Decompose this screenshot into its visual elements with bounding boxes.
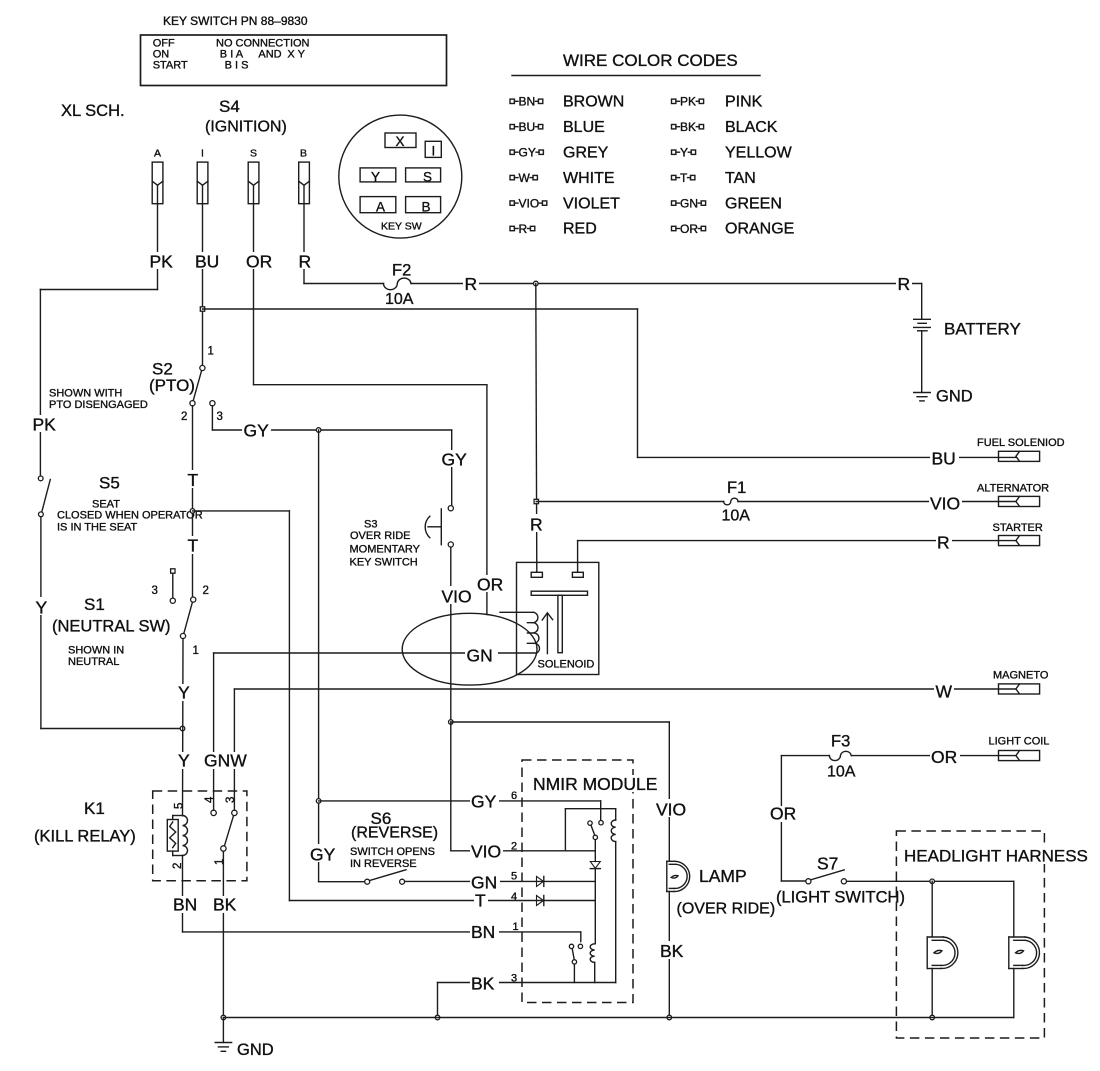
battery xyxy=(914,284,1021,393)
svg-text:S1: S1 xyxy=(84,595,105,614)
svg-text:Y: Y xyxy=(178,751,190,771)
svg-text:PK: PK xyxy=(33,415,57,435)
node junction VIO xyxy=(449,720,454,725)
svg-text:MOMENTARY: MOMENTARY xyxy=(350,544,421,556)
svg-text:PK: PK xyxy=(680,95,696,109)
svg-text:S7: S7 xyxy=(817,854,838,874)
legend VIO = VIOLET xyxy=(510,195,620,212)
svg-text:VIO: VIO xyxy=(930,494,960,514)
wire BK from lamp to ground bus xyxy=(659,892,686,1018)
svg-text:VIO: VIO xyxy=(442,587,472,607)
node junction Y xyxy=(180,726,185,731)
svg-text:PK: PK xyxy=(150,252,174,272)
node junction BU xyxy=(200,307,204,311)
svg-text:GN: GN xyxy=(467,646,493,666)
svg-text:STARTER: STARTER xyxy=(993,522,1043,534)
node junction GY xyxy=(316,428,321,433)
svg-text:Y: Y xyxy=(371,169,380,184)
legend BK = BLACK xyxy=(672,119,778,136)
svg-text:BK: BK xyxy=(213,895,237,915)
svg-text:TAN: TAN xyxy=(725,170,756,187)
wire BK inside NMIR xyxy=(522,982,616,984)
NMIR diode D3 on pin 4 line xyxy=(537,896,544,906)
wire VIO from S3 down through engine ellipse xyxy=(441,547,476,722)
relay K1 (kill relay) xyxy=(34,791,247,881)
svg-text:R: R xyxy=(299,252,312,272)
legend PK = PINK xyxy=(672,94,763,111)
legend OR = ORANGE xyxy=(672,221,795,238)
switch S1 (neutral) xyxy=(52,569,209,668)
svg-text:(IGNITION): (IGNITION) xyxy=(205,119,287,136)
NMIR pin numbers xyxy=(511,790,519,985)
svg-text:AND: AND xyxy=(258,49,281,61)
svg-text:2: 2 xyxy=(203,585,209,597)
svg-text:ALTERNATOR: ALTERNATOR xyxy=(977,483,1049,495)
wire T to NMIR pin 4 xyxy=(193,511,596,911)
headlight harness box xyxy=(896,831,1088,1038)
svg-text:IN REVERSE: IN REVERSE xyxy=(350,858,417,870)
svg-text:NEUTRAL: NEUTRAL xyxy=(68,656,119,668)
wire GY from S2 pin 3 xyxy=(212,406,469,506)
connector terminal I xyxy=(197,148,208,204)
switch S5 (seat) xyxy=(38,474,202,534)
svg-text:W: W xyxy=(936,682,953,702)
svg-text:SHOWN WITH: SHOWN WITH xyxy=(49,388,122,400)
NMIR relay 1 coil xyxy=(611,809,616,983)
svg-text:1: 1 xyxy=(208,346,214,358)
svg-text:X Y: X Y xyxy=(287,49,305,61)
NMIR diode D1 xyxy=(590,840,600,944)
wire R from terminal B xyxy=(298,204,922,294)
ground GND bottom xyxy=(215,1018,274,1060)
NMIR relay 1 switch xyxy=(588,801,603,840)
wire ground bus xyxy=(223,1017,1013,1019)
wire PK from terminal A xyxy=(31,204,174,476)
svg-text:OR: OR xyxy=(246,252,272,272)
svg-text:FUEL SOLENIOD: FUEL SOLENIOD xyxy=(977,437,1065,449)
connector LIGHT COIL xyxy=(989,736,1050,761)
svg-text:(NEUTRAL SW): (NEUTRAL SW) xyxy=(52,618,171,636)
wire BN from K1 pin 2 to NMIR pin 1 xyxy=(172,856,581,943)
NMIR inner VIO link xyxy=(565,809,615,851)
svg-text:CLOSED WHEN OPERATOR: CLOSED WHEN OPERATOR xyxy=(57,510,203,522)
fuse F2 xyxy=(384,262,414,309)
svg-text:OR: OR xyxy=(680,222,698,236)
svg-text:1: 1 xyxy=(193,645,199,657)
svg-text:4: 4 xyxy=(511,891,517,903)
svg-text:R: R xyxy=(898,274,911,294)
svg-text:GY: GY xyxy=(519,146,536,160)
node junction ground bus left xyxy=(221,1015,226,1020)
node junction BK bus xyxy=(435,1015,440,1020)
wire BU to fuel solenoid xyxy=(203,309,1017,469)
svg-text:W: W xyxy=(519,171,531,185)
wire R/VIO through fuse F1 to alternator xyxy=(536,494,1016,514)
svg-text:2: 2 xyxy=(511,841,517,853)
svg-text:IS IN THE SEAT: IS IN THE SEAT xyxy=(57,522,138,534)
legend GN = GREEN xyxy=(672,195,782,212)
svg-text:(LIGHT SWITCH): (LIGHT SWITCH) xyxy=(776,889,905,907)
svg-text:F2: F2 xyxy=(392,262,411,280)
node junction bulb left bus xyxy=(930,1015,935,1020)
svg-text:PTO DISENGAGED: PTO DISENGAGED xyxy=(49,399,148,411)
key switch truth table box xyxy=(141,35,447,86)
svg-text:ORANGE: ORANGE xyxy=(725,221,794,238)
svg-text:10A: 10A xyxy=(385,291,414,308)
svg-text:BU: BU xyxy=(195,252,219,272)
svg-text:NMIR MODULE: NMIR MODULE xyxy=(533,774,657,794)
svg-text:BATTERY: BATTERY xyxy=(944,320,1021,339)
legend R = RED xyxy=(510,221,597,238)
svg-text:B: B xyxy=(300,148,307,160)
svg-text:BROWN: BROWN xyxy=(563,94,624,111)
node junction headlight left xyxy=(930,879,935,884)
svg-text:I: I xyxy=(432,144,436,159)
svg-text:Y: Y xyxy=(680,146,688,160)
wire Y from S5 to junction on S1 output xyxy=(34,517,183,729)
svg-text:S: S xyxy=(423,169,432,184)
svg-text:1: 1 xyxy=(513,921,519,933)
svg-text:GY: GY xyxy=(471,792,497,812)
svg-text:SOLENOID: SOLENOID xyxy=(538,659,595,671)
svg-text:HEADLIGHT HARNESS: HEADLIGHT HARNESS xyxy=(904,847,1088,866)
svg-text:OR: OR xyxy=(477,575,503,595)
wire R from solenoid to starter xyxy=(578,533,1016,573)
svg-text:MAGNETO: MAGNETO xyxy=(993,670,1049,682)
key switch rear view circle xyxy=(339,115,462,238)
wire BU from terminal I xyxy=(194,204,219,366)
legend GY = GREY xyxy=(510,144,609,161)
svg-text:S3: S3 xyxy=(364,519,377,531)
wire GN from S6 to NMIR pin 5 xyxy=(405,873,596,893)
svg-text:VIO: VIO xyxy=(656,800,686,820)
wire GY to NMIR pin 6 xyxy=(319,792,601,812)
wire T from S2 pin 2 to S1 pin 2 xyxy=(186,406,200,597)
svg-text:5: 5 xyxy=(174,803,186,809)
svg-text:BLUE: BLUE xyxy=(563,119,605,136)
switch S2 (PTO) xyxy=(49,346,223,424)
svg-text:GREY: GREY xyxy=(563,144,609,161)
svg-text:T: T xyxy=(680,171,688,185)
svg-text:3: 3 xyxy=(152,585,158,597)
NMIR module box xyxy=(522,760,657,1003)
svg-text:X: X xyxy=(396,134,405,149)
svg-text:YELLOW: YELLOW xyxy=(725,144,793,161)
svg-text:R: R xyxy=(519,222,528,236)
svg-text:F1: F1 xyxy=(727,479,746,497)
svg-text:I: I xyxy=(201,148,204,160)
connector terminal S xyxy=(248,148,259,204)
NMIR diode D2 on pin 5 line xyxy=(537,876,544,886)
lamp (over ride) xyxy=(667,861,775,917)
svg-text:BU: BU xyxy=(519,120,536,134)
svg-text:BLACK: BLACK xyxy=(725,119,778,136)
svg-text:SHOWN IN: SHOWN IN xyxy=(68,645,124,657)
svg-text:GN: GN xyxy=(471,873,497,893)
NMIR relay 2 coil xyxy=(590,944,595,983)
svg-text:RED: RED xyxy=(563,221,597,238)
svg-text:WIRE COLOR CODES: WIRE COLOR CODES xyxy=(563,51,738,70)
svg-text:GND: GND xyxy=(936,388,973,406)
legend BN = BROWN xyxy=(510,94,624,111)
NMIR relay 2 switch xyxy=(569,932,582,983)
svg-text:LAMP: LAMP xyxy=(699,866,747,886)
node junction R xyxy=(534,281,539,286)
node junction GY NMIR xyxy=(316,799,321,804)
wire GN from K1 pin 4 to solenoid coil xyxy=(214,642,537,810)
connector STARTER xyxy=(993,522,1043,546)
svg-text:GY: GY xyxy=(442,450,468,470)
svg-text:3: 3 xyxy=(225,797,237,803)
svg-text:1: 1 xyxy=(214,859,226,865)
svg-text:BK: BK xyxy=(680,120,696,134)
solenoid coil xyxy=(500,612,539,653)
svg-text:6: 6 xyxy=(511,790,517,802)
legend W = WHITE xyxy=(510,170,615,187)
svg-text:BN: BN xyxy=(471,922,495,942)
wire BK from NMIR pin 3 to ground bus xyxy=(438,974,523,1018)
legend T = TAN xyxy=(672,170,756,187)
svg-text:3: 3 xyxy=(217,411,223,423)
svg-text:XL SCH.: XL SCH. xyxy=(61,102,125,120)
wire VIO junction to NMIR pin 2 xyxy=(451,722,596,862)
svg-text:B I S: B I S xyxy=(225,60,249,72)
wire OR from light coil fuse F3 to S7 xyxy=(769,747,1016,881)
svg-text:10A: 10A xyxy=(827,764,856,781)
svg-text:A: A xyxy=(376,200,385,215)
svg-text:GY: GY xyxy=(244,421,270,441)
svg-text:S4: S4 xyxy=(219,97,240,116)
connector MAGNETO xyxy=(993,670,1049,695)
svg-text:Y: Y xyxy=(36,598,48,618)
wire R from junction to solenoid terminal xyxy=(528,284,545,573)
engine ellipse xyxy=(402,613,537,685)
svg-text:(REVERSE): (REVERSE) xyxy=(351,825,438,842)
svg-text:OR: OR xyxy=(931,747,957,767)
connector terminal B xyxy=(299,148,310,204)
wire OR from S7 to headlights xyxy=(847,880,1014,882)
switch S4 label xyxy=(205,97,287,136)
connector ALTERNATOR xyxy=(977,483,1049,507)
svg-text:BK: BK xyxy=(471,974,495,994)
svg-text:BN: BN xyxy=(173,895,197,915)
svg-text:T: T xyxy=(188,470,199,490)
headlight bulb left xyxy=(927,881,958,1017)
svg-text:GND: GND xyxy=(237,1041,274,1059)
wire Y from S1 pin 1 to K1 xyxy=(177,639,190,816)
switch S3 (override momentary) xyxy=(350,506,454,569)
svg-text:WHITE: WHITE xyxy=(563,170,615,187)
svg-text:GN: GN xyxy=(680,196,698,210)
svg-text:T: T xyxy=(475,891,486,911)
ground at battery xyxy=(914,388,973,406)
switch S7 (light switch) xyxy=(775,854,906,907)
legend BU = BLUE xyxy=(510,119,605,136)
switch S6 (reverse) xyxy=(350,809,438,884)
svg-text:GNW: GNW xyxy=(204,751,247,771)
connector FUEL SOLENIOD xyxy=(977,437,1065,461)
node junction R F1 xyxy=(534,499,538,503)
svg-text:S5: S5 xyxy=(99,474,120,493)
fuse F1 xyxy=(722,479,751,525)
node junction T xyxy=(190,509,195,514)
svg-text:(PTO): (PTO) xyxy=(149,376,195,395)
svg-text:VIO: VIO xyxy=(471,842,501,862)
svg-text:(KILL RELAY): (KILL RELAY) xyxy=(34,828,136,846)
svg-text:BU: BU xyxy=(932,449,956,469)
svg-text:LIGHT COIL: LIGHT COIL xyxy=(989,736,1050,748)
wire GY junction down to S6 xyxy=(309,430,365,882)
wire color codes legend xyxy=(512,51,760,76)
svg-text:A: A xyxy=(154,148,161,160)
svg-text:R: R xyxy=(465,274,478,294)
wire VIO junction to lamp xyxy=(451,722,691,861)
svg-text:KEY SWITCH: KEY SWITCH xyxy=(350,557,418,569)
svg-text:BN: BN xyxy=(519,95,536,109)
svg-text:PINK: PINK xyxy=(725,94,763,111)
legend Y = YELLOW xyxy=(672,144,793,161)
wire W from K1 pin 3 to magneto xyxy=(234,681,1016,810)
svg-text:5: 5 xyxy=(511,871,517,883)
svg-text:R: R xyxy=(937,533,950,553)
svg-text:START: START xyxy=(153,60,188,72)
svg-text:Y: Y xyxy=(178,683,190,703)
svg-text:VIO: VIO xyxy=(519,196,540,210)
svg-text:T: T xyxy=(188,536,199,556)
connector terminal A xyxy=(152,148,163,204)
node junction lamp bus xyxy=(667,1015,672,1020)
svg-text:SWITCH OPENS: SWITCH OPENS xyxy=(350,846,435,858)
svg-text:B: B xyxy=(422,200,431,215)
wire BK from K1 pin 1 to ground bus xyxy=(212,851,239,1017)
svg-text:S: S xyxy=(250,148,257,160)
svg-text:GREEN: GREEN xyxy=(725,195,782,212)
svg-text:BK: BK xyxy=(660,941,684,961)
svg-text:(OVER RIDE): (OVER RIDE) xyxy=(677,901,776,918)
svg-text:OR: OR xyxy=(770,804,796,824)
solenoid box xyxy=(517,562,599,674)
svg-text:GY: GY xyxy=(310,845,336,865)
svg-text:KEY SWITCH PN 88–9830: KEY SWITCH PN 88–9830 xyxy=(163,14,308,28)
svg-text:F3: F3 xyxy=(831,733,850,751)
svg-text:OVER RIDE: OVER RIDE xyxy=(350,530,411,542)
svg-text:KEY SW: KEY SW xyxy=(381,221,422,233)
fuse F3 xyxy=(827,733,856,781)
svg-text:K1: K1 xyxy=(84,799,105,818)
svg-text:R: R xyxy=(530,515,543,535)
svg-text:2: 2 xyxy=(181,411,187,423)
svg-text:10A: 10A xyxy=(722,508,751,525)
headlight bulb right xyxy=(1009,881,1040,1017)
wire OR from terminal S xyxy=(245,204,506,615)
label GNW on K1 pin wires xyxy=(203,751,247,771)
svg-text:VIOLET: VIOLET xyxy=(563,195,620,212)
